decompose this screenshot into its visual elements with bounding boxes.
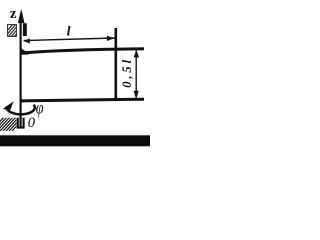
svg-text:0,5l: 0,5l (120, 57, 134, 88)
svg-text:z: z (10, 6, 17, 22)
svg-text:0: 0 (28, 115, 36, 131)
svg-text:l: l (67, 25, 71, 40)
svg-text:φ: φ (36, 99, 44, 118)
